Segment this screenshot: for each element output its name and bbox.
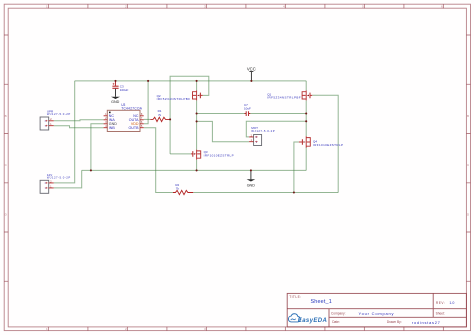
capacitor C7 <box>244 103 251 116</box>
resistor R1 <box>150 109 170 121</box>
junction C3/rail <box>114 80 116 82</box>
svg-text:IRF1010EZSTRLP: IRF1010EZSTRLP <box>204 154 234 158</box>
svg-text:7k: 7k <box>176 186 180 190</box>
junction node B lower <box>305 120 307 122</box>
junction node A lower <box>196 120 198 122</box>
wire node X vertical / Q2 gate loop <box>170 76 209 154</box>
junction GND rail left <box>90 169 92 171</box>
wire 12V pin1 to GND rail <box>54 170 82 188</box>
connector UPR WJ127-5.0-2P <box>40 110 70 131</box>
junction Q3 source/rail <box>196 169 198 171</box>
pin 3 GND <box>104 123 108 125</box>
pin 7 OUTA <box>140 119 144 121</box>
EasyEDA logo <box>288 314 326 324</box>
wire GND rail <box>82 169 307 171</box>
wire node B column <box>305 81 307 170</box>
wire node B to MOT pin2 <box>246 121 306 137</box>
ground symbol GND (on GND rail) <box>247 170 256 187</box>
wire UPR pin1 to INB <box>54 126 104 128</box>
svg-text:Date:: Date: <box>332 320 340 324</box>
pin 1 NC <box>104 115 108 117</box>
svg-text:GND: GND <box>247 183 256 187</box>
pin 5 OUTB <box>140 127 144 129</box>
pin 4 INB <box>104 127 108 129</box>
transistor Q2 IRF5Z34NSTRLPBF (P-ch, top-left) <box>157 90 203 101</box>
junction GND symbol/rail <box>250 169 252 171</box>
title block (sheet furniture) <box>287 293 466 327</box>
resistor R2 <box>173 183 193 195</box>
svg-text:D: D <box>5 212 8 216</box>
svg-text:Company:: Company: <box>331 311 346 315</box>
svg-text:VCC: VCC <box>247 66 256 71</box>
svg-text:WJ127-5.0-2P: WJ127-5.0-2P <box>251 129 274 133</box>
junction Q4 gate node <box>293 191 295 193</box>
svg-text:EasyEDA: EasyEDA <box>298 318 327 324</box>
svg-text:OUTB: OUTB <box>129 126 140 130</box>
wire UPR pin2 to INA <box>54 120 104 121</box>
svg-text:TITLE:: TITLE: <box>289 295 301 299</box>
svg-text:REV:: REV: <box>436 301 445 305</box>
svg-text:B: B <box>467 114 469 118</box>
svg-text:Sheet:: Sheet: <box>436 311 445 315</box>
connector 12V WJ127-5.0-2P <box>40 173 70 193</box>
wire Q1 gate loop <box>312 95 338 192</box>
transistor Q3 IRF1010EZSTRLP (N-ch, bottom-left) <box>191 150 234 160</box>
svg-text:Sheet_1: Sheet_1 <box>311 299 332 305</box>
wire OUTB down to R2 <box>144 128 173 193</box>
power flag VCC <box>247 66 256 81</box>
svg-text:TC4427COA: TC4427COA <box>121 106 143 110</box>
junction dots <box>90 80 307 194</box>
wire VDD to VCC rail <box>144 81 148 124</box>
svg-text:7k: 7k <box>158 113 162 117</box>
svg-text:C: C <box>5 163 8 167</box>
wire C7 right to node B <box>250 113 306 115</box>
junction node A upper <box>196 112 198 114</box>
transistor Q1 IRF5Z34NSTRLPBF (P-ch, top-right) <box>267 90 312 100</box>
wire R2 to Q4 gate node <box>193 192 338 194</box>
svg-text:100uF: 100uF <box>120 88 129 92</box>
svg-text:10uF: 10uF <box>244 107 251 111</box>
svg-text:INB: INB <box>109 126 116 130</box>
wire node A to MOT pin1 <box>197 121 250 141</box>
wire U3 GND pin to GND rail <box>91 124 104 171</box>
transistor Q4 IRF1010EZSTRLP (N-ch, right) <box>299 136 343 147</box>
pin name labels <box>109 114 139 130</box>
svg-text:WJ127-5.0-2P: WJ127-5.0-2P <box>47 112 70 116</box>
junction VDD/rail <box>147 80 149 82</box>
IC U3 TC4427COA <box>104 103 144 132</box>
wire node A to C7 left <box>197 113 245 115</box>
pin 8 NC <box>140 115 144 117</box>
svg-text:IRF5Z34NSTRLPBF: IRF5Z34NSTRLPBF <box>267 96 301 100</box>
wire OUTA to R1 <box>144 118 151 120</box>
junction node B upper <box>305 112 307 114</box>
svg-text:D: D <box>467 212 470 216</box>
wire 12V pin2 to VCC rail <box>54 81 75 183</box>
wire node X to Q3 gate <box>170 153 191 155</box>
svg-text:IRF1010EZSTRLP: IRF1010EZSTRLP <box>313 143 343 147</box>
svg-text:rodinstas27: rodinstas27 <box>412 320 441 325</box>
svg-text:Your Company: Your Company <box>359 311 394 316</box>
pin 6 VDD <box>140 123 144 125</box>
wire VCC top rail <box>75 80 307 82</box>
svg-text:WJ127-5.0-2P: WJ127-5.0-2P <box>47 176 70 180</box>
svg-text:C: C <box>467 163 470 167</box>
svg-text:Drawn By:: Drawn By: <box>387 320 402 324</box>
junction Q2/rail <box>196 80 198 82</box>
svg-text:1.0: 1.0 <box>449 301 454 305</box>
svg-text:B: B <box>5 114 7 118</box>
capacitor C3 <box>112 81 128 92</box>
svg-text:IRF5Z34NSTRLPBF: IRF5Z34NSTRLPBF <box>157 97 191 101</box>
pin 2 INA <box>104 119 108 121</box>
svg-text:GND: GND <box>111 100 120 104</box>
wire node A column <box>196 81 198 170</box>
connector MOT WJ127-5.0-2P <box>249 126 275 146</box>
wire Q4 gate branch <box>294 142 299 193</box>
ground symbol GND (under C3) <box>111 89 120 104</box>
junction VCC/rail <box>250 80 252 82</box>
junction node X <box>169 118 171 120</box>
